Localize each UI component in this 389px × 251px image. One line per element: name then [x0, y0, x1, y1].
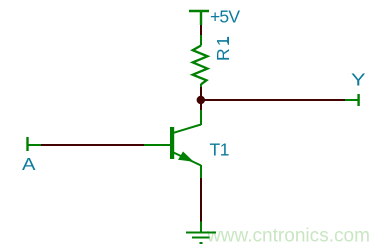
port Y pin [345, 94, 359, 106]
ground [186, 222, 216, 244]
emitter diagonal [174, 153, 202, 166]
svg-text:A: A [22, 154, 36, 174]
base pin [144, 144, 170, 146]
power symbol +5V [189, 11, 209, 25]
node junction dot [197, 96, 205, 104]
wire node to Y [203, 99, 345, 101]
svg-text:+5V: +5V [210, 7, 240, 27]
emitter arrow [178, 152, 194, 162]
svg-text:Y: Y [351, 70, 366, 89]
wire R1 to node [200, 87, 202, 110]
resistor R1 [193, 35, 208, 88]
transistor T1 [144, 110, 201, 179]
wire V+ to R1 [200, 25, 202, 36]
wire A to T1 base [41, 144, 145, 146]
collector diagonal [174, 125, 202, 133]
svg-text:R1: R1 [213, 34, 233, 61]
base bar [170, 127, 174, 159]
port A pin [28, 137, 42, 151]
collector pin [200, 110, 202, 125]
svg-text:T1: T1 [210, 140, 229, 160]
wire T1 emitter to ground [200, 178, 202, 222]
emitter pin [200, 165, 202, 179]
svg-text:www.cntronics.com: www.cntronics.com [206, 226, 370, 247]
